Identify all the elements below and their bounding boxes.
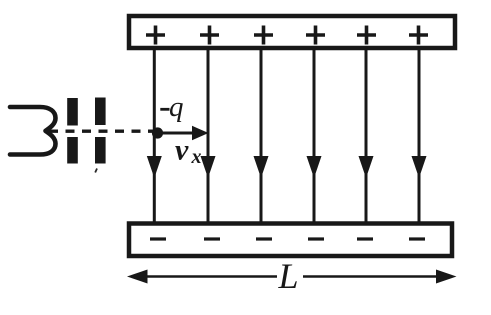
field line 3 (260, 49, 263, 223)
field line 1 (153, 49, 156, 223)
plus sign 2 (200, 26, 219, 45)
field line 5 (365, 49, 368, 223)
dashed beam path (49, 129, 153, 132)
arrowhead on field line 4 (307, 156, 322, 178)
minus sign 2 (204, 237, 220, 240)
arrowhead on field line 1 (147, 156, 162, 178)
label vx (175, 134, 202, 169)
speck artifact (95, 169, 97, 173)
field line 6 (418, 49, 421, 223)
minus sign 5 (357, 237, 373, 240)
slit plate pair 1 lower bar (67, 137, 78, 164)
label -q (160, 91, 183, 123)
plus sign 3 (254, 26, 273, 45)
minus sign 6 (409, 237, 425, 240)
svg-text:L: L (278, 256, 299, 296)
label L (278, 256, 299, 296)
slit plate pair 2 lower bar (95, 137, 106, 164)
dimension arrow L right part (303, 270, 457, 284)
charge particle dot (152, 127, 163, 138)
cathode filament coil (10, 107, 56, 155)
minus sign 4 (308, 237, 324, 240)
field line 2 (207, 49, 210, 223)
svg-text:q: q (169, 91, 184, 123)
minus sign 1 (150, 237, 166, 240)
velocity arrow vx (160, 126, 209, 140)
arrowhead on field line 5 (359, 156, 374, 178)
field line 4 (313, 49, 316, 223)
arrowhead on field line 6 (412, 156, 427, 178)
slit plate pair 1 upper bar (67, 98, 78, 126)
minus sign 3 (256, 237, 272, 240)
arrowhead on field line 2 (201, 156, 216, 178)
dimension arrow L left part (127, 270, 277, 284)
bottom plate (negative plate) (129, 224, 452, 257)
plus sign 1 (146, 26, 165, 45)
plus sign 6 (409, 26, 428, 45)
svg-text:v: v (175, 134, 189, 167)
arrowhead on field line 3 (254, 156, 269, 178)
slit plate pair 2 upper bar (95, 98, 106, 126)
svg-text:x: x (191, 146, 202, 168)
top plate (positive plate) (129, 16, 455, 48)
plus sign 4 (306, 26, 325, 45)
plus sign 5 (357, 26, 376, 45)
